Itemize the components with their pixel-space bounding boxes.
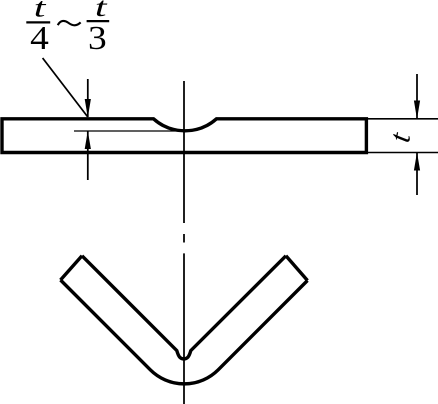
groove depth reference line	[74, 130, 185, 132]
thickness dimension line lower part	[416, 153, 418, 196]
depth dimension arrow down	[85, 99, 91, 118]
thickness dimension arrow down	[414, 101, 420, 120]
centerline short dash	[183, 234, 185, 243]
svg-text:3: 3	[88, 19, 107, 57]
thickness dimension arrow up	[414, 152, 420, 170]
V-bend left end cap	[61, 256, 83, 280]
V-bend right end cap	[286, 256, 308, 281]
fraction bar 2	[87, 20, 110, 22]
leader line from fraction to groove	[43, 58, 88, 117]
extension line top right	[368, 118, 438, 120]
svg-text:4: 4	[30, 19, 49, 57]
depth dimension line upper part	[87, 79, 89, 117]
centerline lower segment	[183, 253, 185, 404]
V-bend inner edge	[82, 256, 286, 359]
depth dimension arrow up	[85, 131, 91, 149]
fraction bar 1	[26, 21, 50, 23]
thickness dimension line upper part	[416, 74, 418, 119]
depth dimension line lower part	[87, 131, 89, 180]
V-bend outer edge	[61, 280, 308, 384]
centerline upper segment	[183, 81, 185, 223]
plate outline with groove	[2, 119, 366, 153]
tilde	[58, 21, 81, 25]
extension line bottom right	[368, 152, 438, 154]
